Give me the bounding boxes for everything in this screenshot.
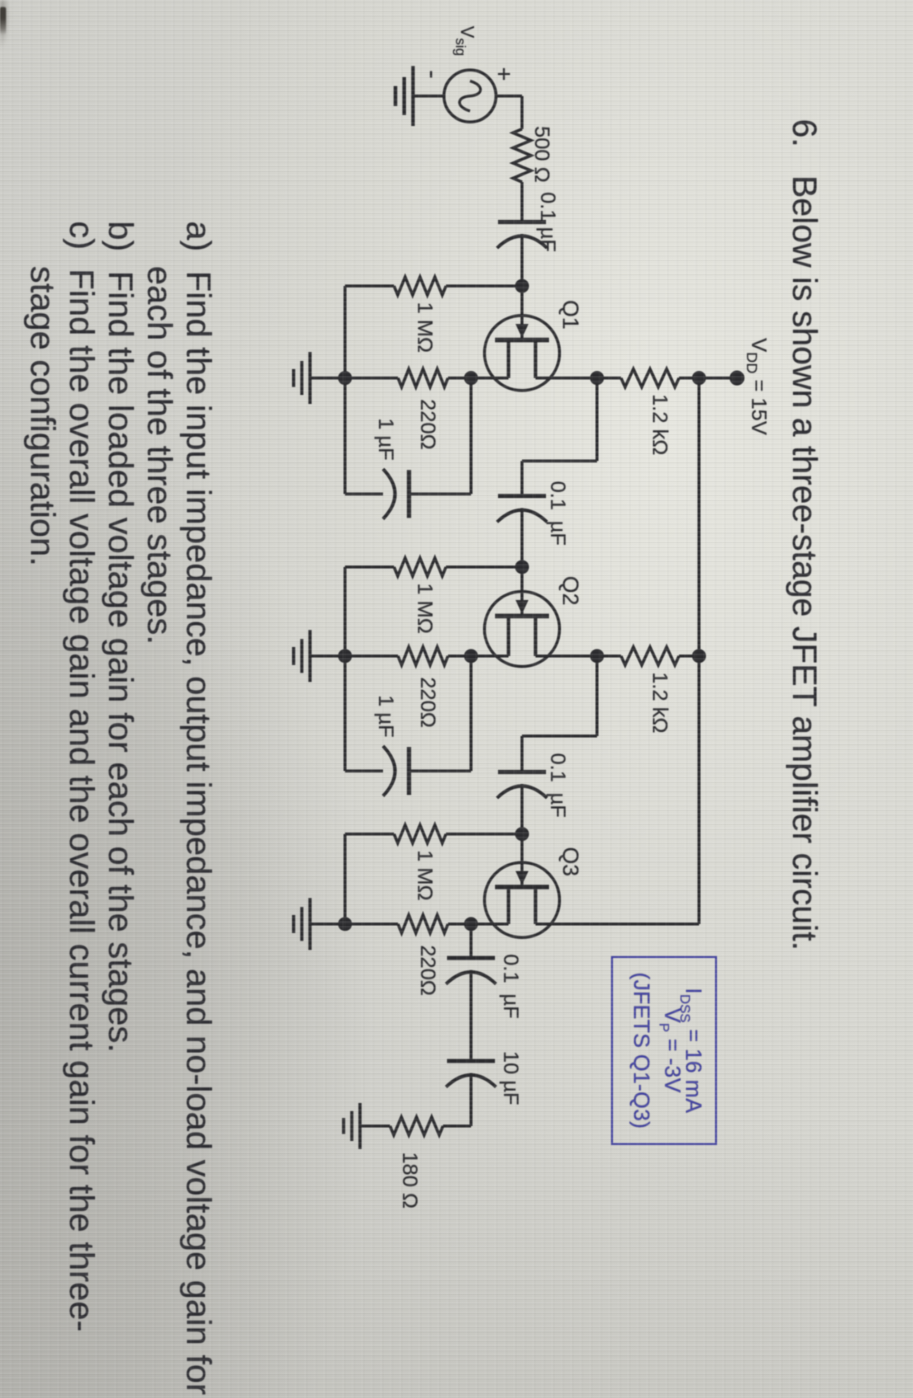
- svg-text:1 MΩ: 1 MΩ: [413, 302, 436, 353]
- svg-text:0.1 µF: 0.1 µF: [499, 954, 522, 1019]
- svg-text:180 Ω: 180 Ω: [398, 1152, 421, 1209]
- svg-text:Vsig: Vsig: [453, 26, 477, 56]
- svg-text:-: -: [418, 70, 448, 79]
- svg-text:1.2 kΩ: 1.2 kΩ: [648, 394, 671, 455]
- svg-text:+: +: [490, 67, 517, 81]
- svg-text:10 µF: 10 µF: [499, 1051, 522, 1105]
- svg-text:0.1 µF: 0.1 µF: [546, 753, 569, 818]
- svg-text:220Ω: 220Ω: [416, 945, 439, 996]
- svg-text:Q3: Q3: [558, 847, 583, 876]
- svg-text:1 MΩ: 1 MΩ: [413, 850, 436, 901]
- svg-text:Q1: Q1: [558, 300, 583, 329]
- svg-text:1 µF: 1 µF: [374, 695, 397, 737]
- svg-text:0.1 µF: 0.1 µF: [536, 192, 559, 252]
- svg-text:0.1 µF: 0.1 µF: [546, 481, 569, 546]
- svg-text:1 MΩ: 1 MΩ: [413, 583, 436, 634]
- svg-text:1.2 kΩ: 1.2 kΩ: [648, 672, 671, 733]
- svg-text:220Ω: 220Ω: [416, 399, 439, 450]
- svg-text:220Ω: 220Ω: [416, 677, 439, 728]
- svg-text:500 Ω: 500 Ω: [530, 126, 553, 183]
- svg-text:VDD = 15V: VDD = 15V: [743, 338, 770, 435]
- svg-text:Q2: Q2: [558, 576, 583, 605]
- svg-text:1 µF: 1 µF: [374, 418, 397, 460]
